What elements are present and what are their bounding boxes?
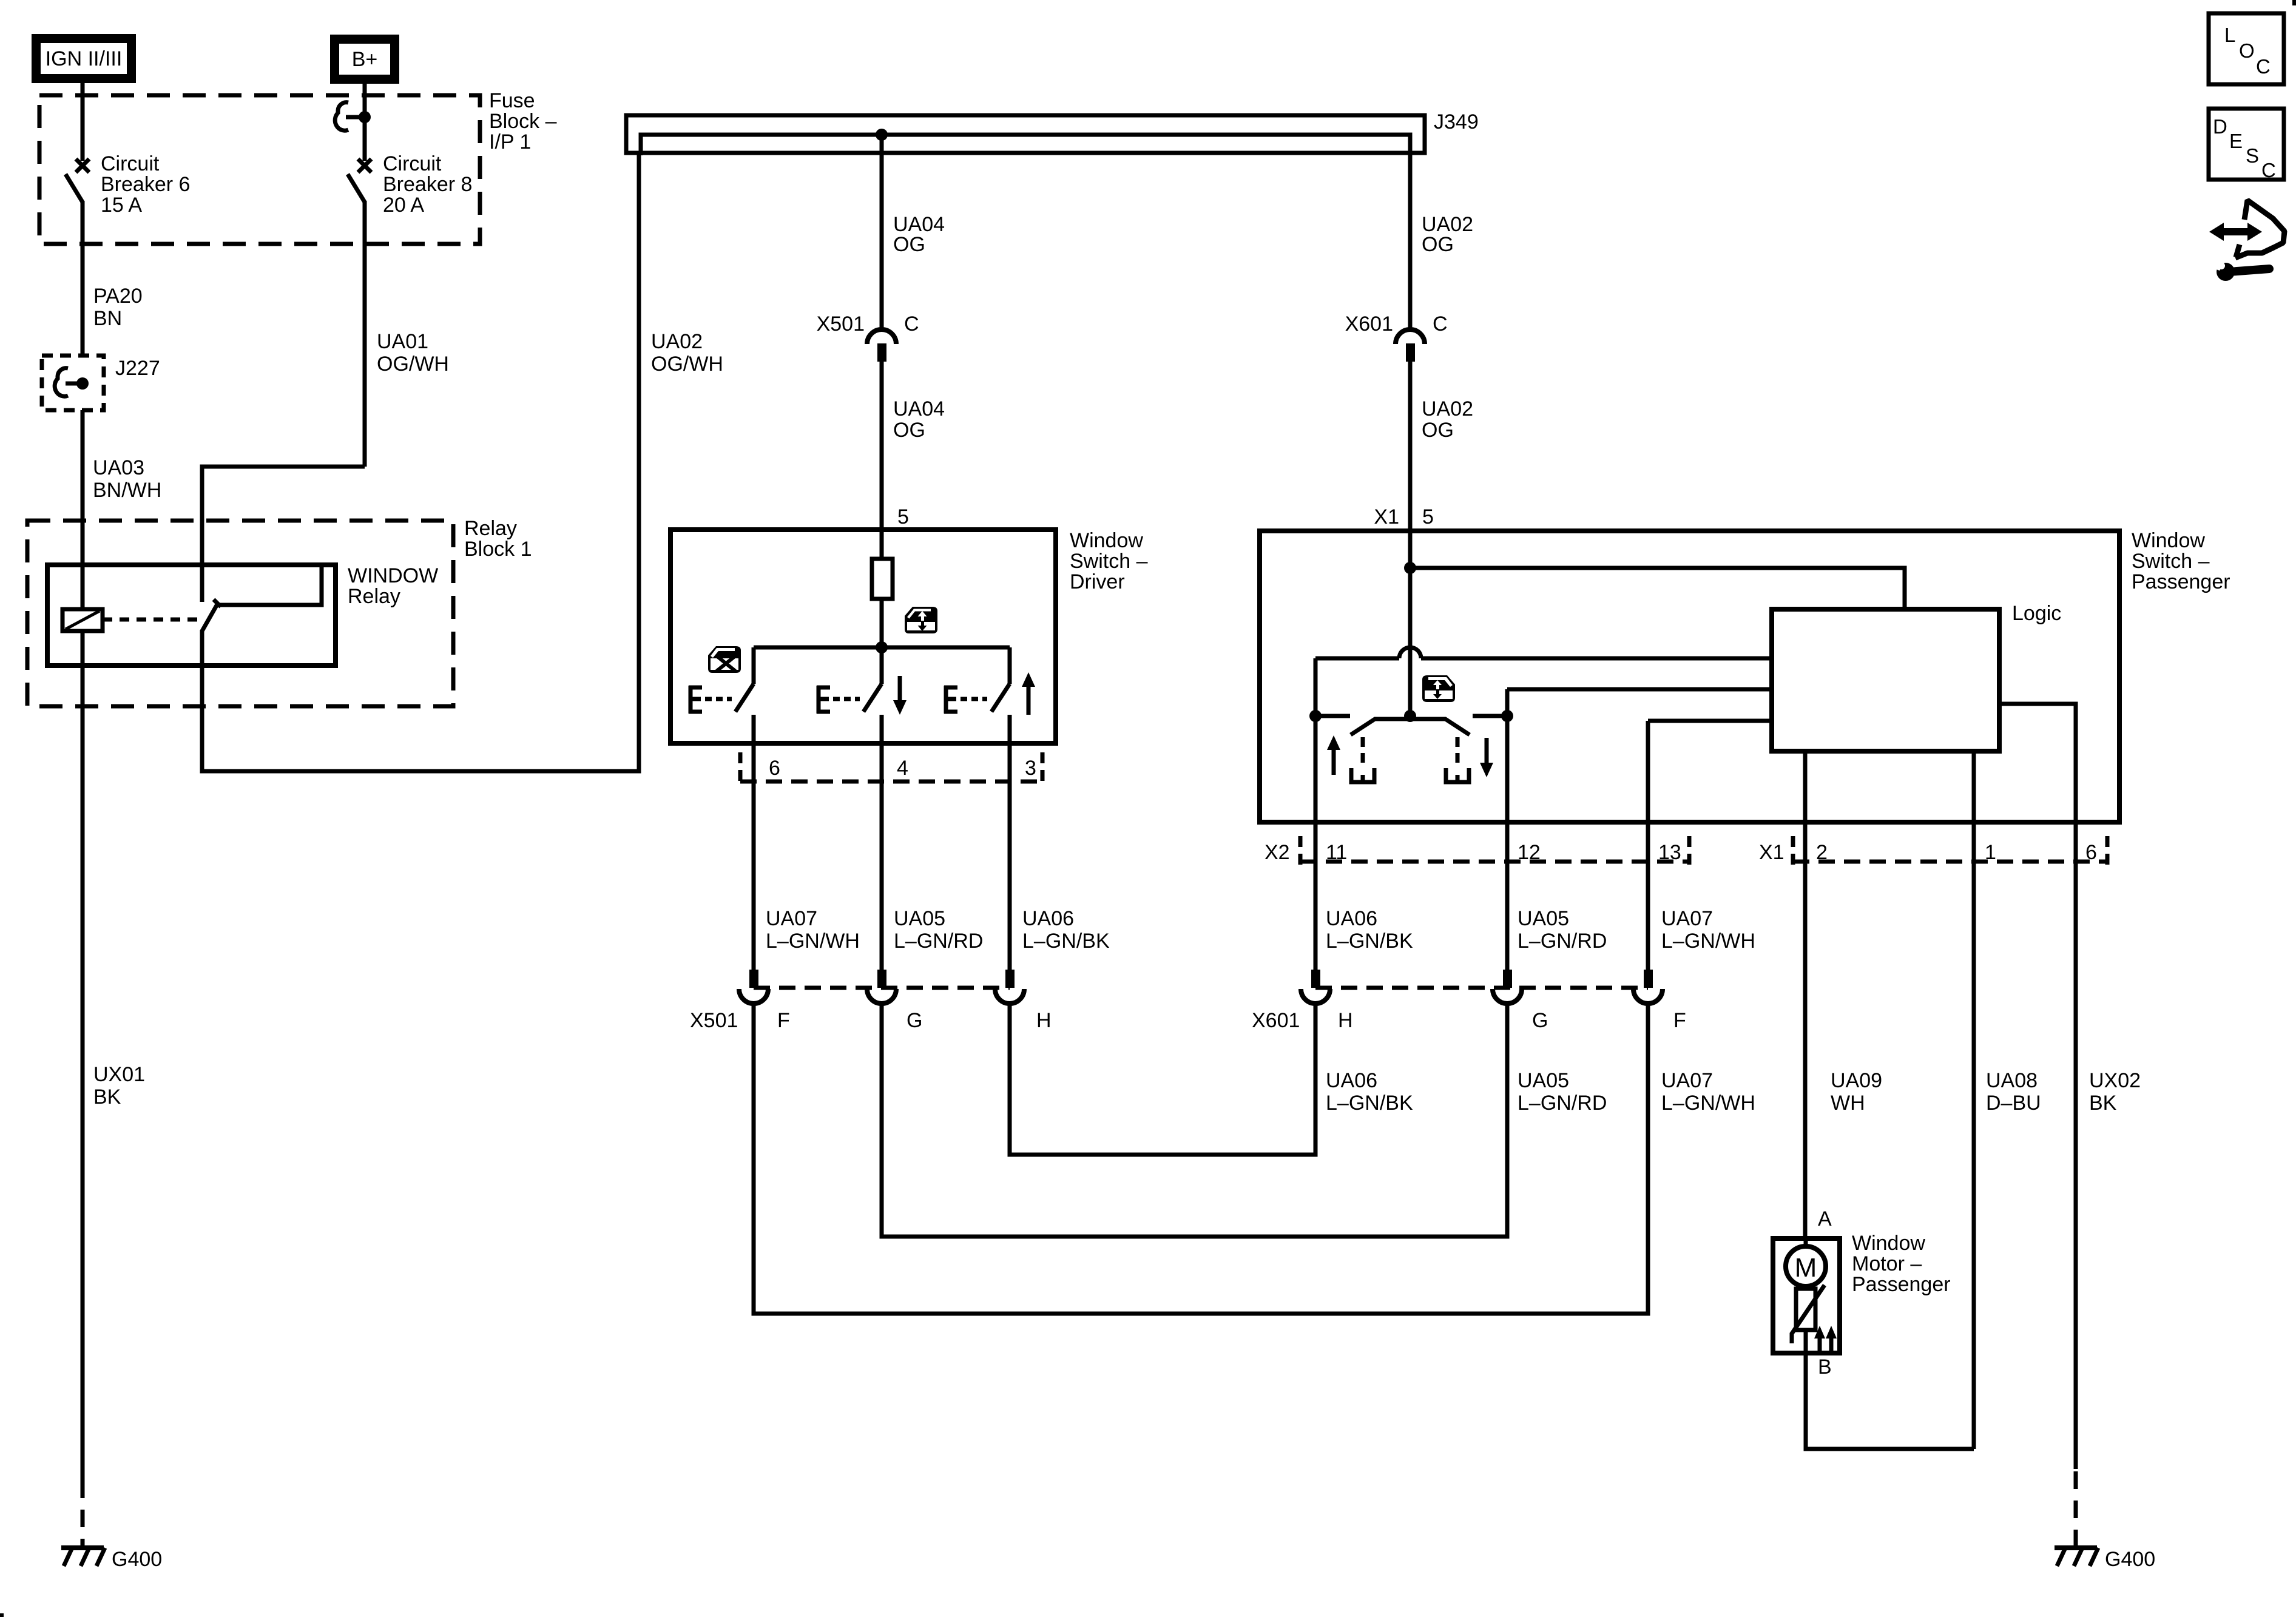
passenger connector pin labels [1264,841,2097,864]
up arrow passenger [1327,735,1340,775]
svg-text:IGN II/III: IGN II/III [46,47,123,70]
wire UA01 vertical [363,201,367,467]
window motor passenger box [1773,1238,1840,1353]
svg-text:UA05: UA05 [1518,1069,1569,1092]
label UA03 BN/WH [93,456,161,502]
svg-text:X501: X501 [690,1009,738,1032]
svg-text:D–BU: D–BU [1986,1092,2041,1115]
svg-text:Fuse: Fuse [489,89,535,112]
wire UX01 [81,630,85,1480]
wire UA03 [81,410,85,609]
motor double up arrows [1814,1326,1837,1352]
wire PA20 [81,201,85,356]
svg-text:UA08: UA08 [1986,1069,2038,1092]
svg-text:OG: OG [1422,419,1454,442]
wire UA04 lower [880,362,884,530]
wire pin5 into resistor [880,530,884,559]
svg-text:UA07: UA07 [766,907,817,930]
window switch driver label [1070,529,1148,593]
svg-text:G400: G400 [2105,1548,2155,1571]
LOC legend box [2209,13,2284,84]
svg-text:BK: BK [2089,1092,2117,1115]
connector-view icon plug outline [2235,200,2284,258]
svg-text:L–GN/RD: L–GN/RD [1518,1092,1607,1115]
window switch passenger label [2132,529,2230,593]
svg-text:PA20: PA20 [93,285,143,308]
svg-text:WH: WH [1831,1092,1865,1115]
svg-text:OG: OG [1422,233,1454,256]
svg-text:X2: X2 [1264,841,1290,864]
wire UA04 upper [880,135,884,330]
relay block label [464,517,532,561]
relay coil [62,609,103,631]
svg-text:Window: Window [1852,1232,1925,1255]
wire pin11 riser [1314,658,1318,970]
page artifact top right [2292,0,2296,5]
svg-text:X1: X1 [1759,841,1784,864]
circuit breaker CB8 [348,159,371,202]
svg-text:L–GN/RD: L–GN/RD [1518,930,1607,953]
svg-text:Block –: Block – [489,110,557,133]
svg-text:C: C [1433,312,1448,336]
wire UA01 horizontal to relay [202,467,365,602]
svg-text:J349: J349 [1434,110,1479,133]
svg-text:UA04: UA04 [893,397,945,420]
resistor in driver switch [872,559,893,599]
driver switch bus [754,646,1010,650]
svg-text:UA02: UA02 [651,330,703,353]
svg-text:L–GN/BK: L–GN/BK [1326,930,1413,953]
connector X501 pin F [739,970,768,1004]
window switch driver box [670,530,1056,743]
driver express switch [735,647,754,712]
wire pin1 UA08 [1972,751,1976,1449]
wire labels below X601 [1326,1069,2141,1115]
dashed link express switch [705,697,732,701]
wire logic to pin6 [1999,704,2076,1469]
fusible hook at B+ [335,103,371,130]
logic box [1772,609,1999,751]
driver connector pin labels 6 4 3 [769,757,1036,780]
svg-text:Driver: Driver [1070,570,1125,593]
wire labels above X601 [1326,907,1755,953]
svg-text:5: 5 [897,505,909,528]
wire pin11 bus to logic with hop [1315,647,1772,658]
svg-text:Breaker 6: Breaker 6 [101,173,190,196]
svg-text:BN: BN [93,307,122,330]
power feed box IGN II/III [32,34,136,83]
wire pin6 contact [752,715,756,970]
svg-text:Relay: Relay [348,585,400,608]
svg-text:15 A: 15 A [101,194,142,217]
svg-text:BN/WH: BN/WH [93,479,161,502]
svg-text:Motor –: Motor – [1852,1252,1922,1275]
E symbol up [944,686,957,714]
svg-text:L–GN/RD: L–GN/RD [894,930,983,953]
junction dot driver bus [876,641,888,653]
svg-text:L–GN/BK: L–GN/BK [1022,930,1110,953]
rocker contact bracket right [1446,768,1469,782]
svg-text:3: 3 [1025,757,1036,780]
connector X601 pin C [1345,312,1448,362]
label UX01 BK [93,1063,145,1109]
wire X1-5 into switch [1408,531,1413,716]
svg-text:O: O [2239,39,2255,62]
svg-text:Breaker 8: Breaker 8 [383,173,472,196]
E symbol down [817,686,830,714]
connector X601 row dashed body [1315,986,1648,990]
svg-text:OG/WH: OG/WH [377,353,449,376]
svg-text:UA06: UA06 [1326,907,1377,930]
svg-text:OG: OG [893,233,925,256]
wire feed to logic top [1410,568,1905,609]
rocker switch stubs [1315,714,1507,718]
splice pack J349 [626,110,1479,155]
circuit breaker 8 label [383,152,472,217]
relay switch [202,567,322,631]
up arrow driver [1022,672,1035,715]
svg-text:X1: X1 [1374,505,1399,528]
connector X501 pin G [867,970,896,1004]
wire resistor to bus [880,599,884,647]
wire pin13 riser [1646,721,1650,970]
window up-down icon passenger [1422,675,1455,702]
connector-view icon arrow [2209,223,2262,241]
svg-text:UA06: UA06 [1022,907,1074,930]
connector X601 pin G [1493,970,1522,1004]
label UA02 OG/WH [651,330,723,376]
svg-text:S: S [2246,144,2259,167]
svg-text:BK: BK [93,1085,121,1109]
wire UA05 lower u-route [882,1004,1507,1237]
connector X601 pin H [1301,970,1330,1004]
svg-text:X601: X601 [1252,1009,1300,1032]
svg-text:UA05: UA05 [894,907,945,930]
ground G400 right [2055,1548,2155,1571]
wire UA02 OG lower [1408,362,1413,531]
driver down switch [863,647,882,712]
wire thermistor to box bottom [1804,1330,1808,1353]
connector X501 pin C [817,312,919,362]
svg-text:Window: Window [1070,529,1143,552]
svg-text:Relay: Relay [464,517,517,540]
svg-text:H: H [1338,1009,1353,1032]
window up-down icon driver [905,607,937,633]
svg-text:20 A: 20 A [383,194,424,217]
motor thermistor [1792,1238,1825,1343]
rocker switch junction dots [1309,710,1513,722]
wire UA08 motor B route [1806,1353,1974,1449]
svg-text:Window: Window [2132,529,2205,552]
svg-text:Switch –: Switch – [1070,550,1148,573]
wire relay output UA02 OG/WH [202,154,639,771]
connector X501 pin H [995,970,1024,1004]
svg-text:D: D [2213,115,2227,138]
svg-text:UX02: UX02 [2089,1069,2141,1092]
express window icon driver [708,646,741,673]
svg-text:L–GN/WH: L–GN/WH [766,930,860,953]
fuse block I/P 1 dashed outline [39,95,480,244]
label UA02 OG upper [1422,213,1473,256]
rocker detent dashed left [1361,737,1365,768]
svg-text:4: 4 [897,757,908,780]
rocker detent dashed right [1456,737,1460,768]
svg-text:OG: OG [893,419,925,442]
svg-text:UA05: UA05 [1518,907,1569,930]
svg-text:Logic: Logic [2012,602,2061,625]
relay block 1 dashed outline [27,521,453,706]
down arrow passenger [1480,738,1493,777]
svg-text:6: 6 [769,757,780,780]
connector X601 pin F [1633,970,1663,1004]
svg-text:I/P 1: I/P 1 [489,130,531,154]
svg-text:F: F [777,1009,790,1032]
svg-text:UA02: UA02 [1422,397,1473,420]
svg-text:UX01: UX01 [93,1063,145,1086]
page artifact bottom left [0,1613,4,1617]
svg-text:B: B [1818,1355,1832,1379]
junction dot feed to logic [1404,562,1416,574]
E symbol express [689,686,702,714]
wire UA02 OG upper [1408,135,1413,330]
svg-text:UA03: UA03 [93,456,144,479]
rocker contact bracket left [1351,768,1374,782]
label UA01 OG/WH [377,330,449,376]
wire pin13 to logic [1648,719,1772,723]
svg-text:Block 1: Block 1 [464,538,532,561]
svg-text:G400: G400 [112,1548,162,1571]
svg-text:L–GN/WH: L–GN/WH [1661,1092,1755,1115]
svg-text:F: F [1673,1009,1686,1032]
wire pin12 to logic [1507,687,1772,692]
label UA04 OG upper [893,213,945,256]
wire pin12 riser [1505,689,1510,970]
dashed link down switch [833,697,860,701]
connector X501 row dashed body [754,986,1010,990]
passenger connector dashed body X1 [1793,836,2107,866]
dashed link up switch [961,697,987,701]
passenger connector dashed body X2 [1300,836,1689,866]
window switch passenger box [1260,531,2119,822]
svg-text:G: G [907,1009,922,1032]
svg-text:L: L [2224,24,2235,46]
splice J227 [42,356,160,410]
wire pin4 contact [880,715,884,970]
window relay label [348,564,438,608]
DESC legend box [2209,109,2284,181]
power feed box B+ [330,35,399,84]
svg-text:UA07: UA07 [1661,1069,1713,1092]
svg-text:A: A [1818,1207,1832,1230]
wire UX02 dashed to ground [2074,1471,2078,1548]
wire B+ feed [363,84,367,161]
connector X501 row labels [690,1009,1052,1032]
svg-text:UA06: UA06 [1326,1069,1377,1092]
driver up switch [991,647,1010,712]
connector-view icon wrench [2210,255,2269,281]
svg-text:WINDOW: WINDOW [348,564,438,587]
svg-text:Circuit: Circuit [101,152,160,175]
wire IGN feed [81,83,85,161]
svg-text:OG/WH: OG/WH [651,353,723,376]
window relay box [47,565,336,666]
svg-text:UA09: UA09 [1831,1069,1882,1092]
svg-text:B+: B+ [352,48,378,71]
svg-text:E: E [2229,130,2243,152]
label UA04 OG lower [893,397,945,442]
svg-text:UA01: UA01 [377,330,428,353]
svg-text:X501: X501 [817,312,865,336]
svg-text:L–GN/BK: L–GN/BK [1326,1092,1413,1115]
down arrow driver [893,676,907,715]
driver connector dashed body [740,752,1042,784]
fuse block label [489,89,557,154]
svg-text:C: C [2261,159,2276,181]
svg-text:C: C [2256,55,2271,78]
svg-text:J227: J227 [115,357,160,380]
wire UA07 lower u-route [754,1004,1648,1314]
connector X601 row labels [1252,1009,1686,1032]
ground G400 left [61,1548,162,1571]
circuit breaker 6 label [101,152,190,217]
wire pin2 UA09 [1803,751,1808,1238]
svg-text:G: G [1532,1009,1548,1032]
svg-text:Passenger: Passenger [2132,570,2230,593]
svg-text:Switch –: Switch – [2132,550,2210,573]
svg-text:C: C [904,312,919,336]
wire UA06 lower u-route [1010,1004,1315,1155]
svg-text:5: 5 [1422,505,1434,528]
svg-text:M: M [1795,1253,1817,1283]
wire labels UA07 UA05 UA06 driver side [766,907,1110,953]
motor label [1852,1232,1951,1296]
wire pin3 contact [1008,715,1012,970]
rocker switch blade [1351,719,1470,735]
label PA20 BN [93,285,143,330]
svg-text:L–GN/WH: L–GN/WH [1661,930,1755,953]
svg-text:Circuit: Circuit [383,152,442,175]
relay actuation dashed link [103,618,202,622]
motor circle M [1786,1246,1826,1286]
svg-text:H: H [1036,1009,1052,1032]
svg-text:UA07: UA07 [1661,907,1713,930]
svg-text:Passenger: Passenger [1852,1273,1951,1296]
circuit breaker CB6 [66,159,89,202]
label UA02 OG lower [1422,397,1473,442]
X1 5 pin label passenger [1374,505,1434,528]
svg-text:X601: X601 [1345,312,1393,336]
